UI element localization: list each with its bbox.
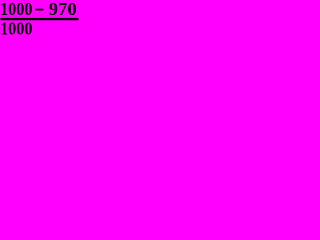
minus sign (35, 9, 43, 11)
background (0, 0, 82, 38)
fraction bar (1, 18, 79, 20)
svg-text:1000: 1000 (0, 18, 33, 38)
svg-text:1000: 1000 (0, 0, 33, 19)
svg-text:970: 970 (49, 0, 77, 19)
